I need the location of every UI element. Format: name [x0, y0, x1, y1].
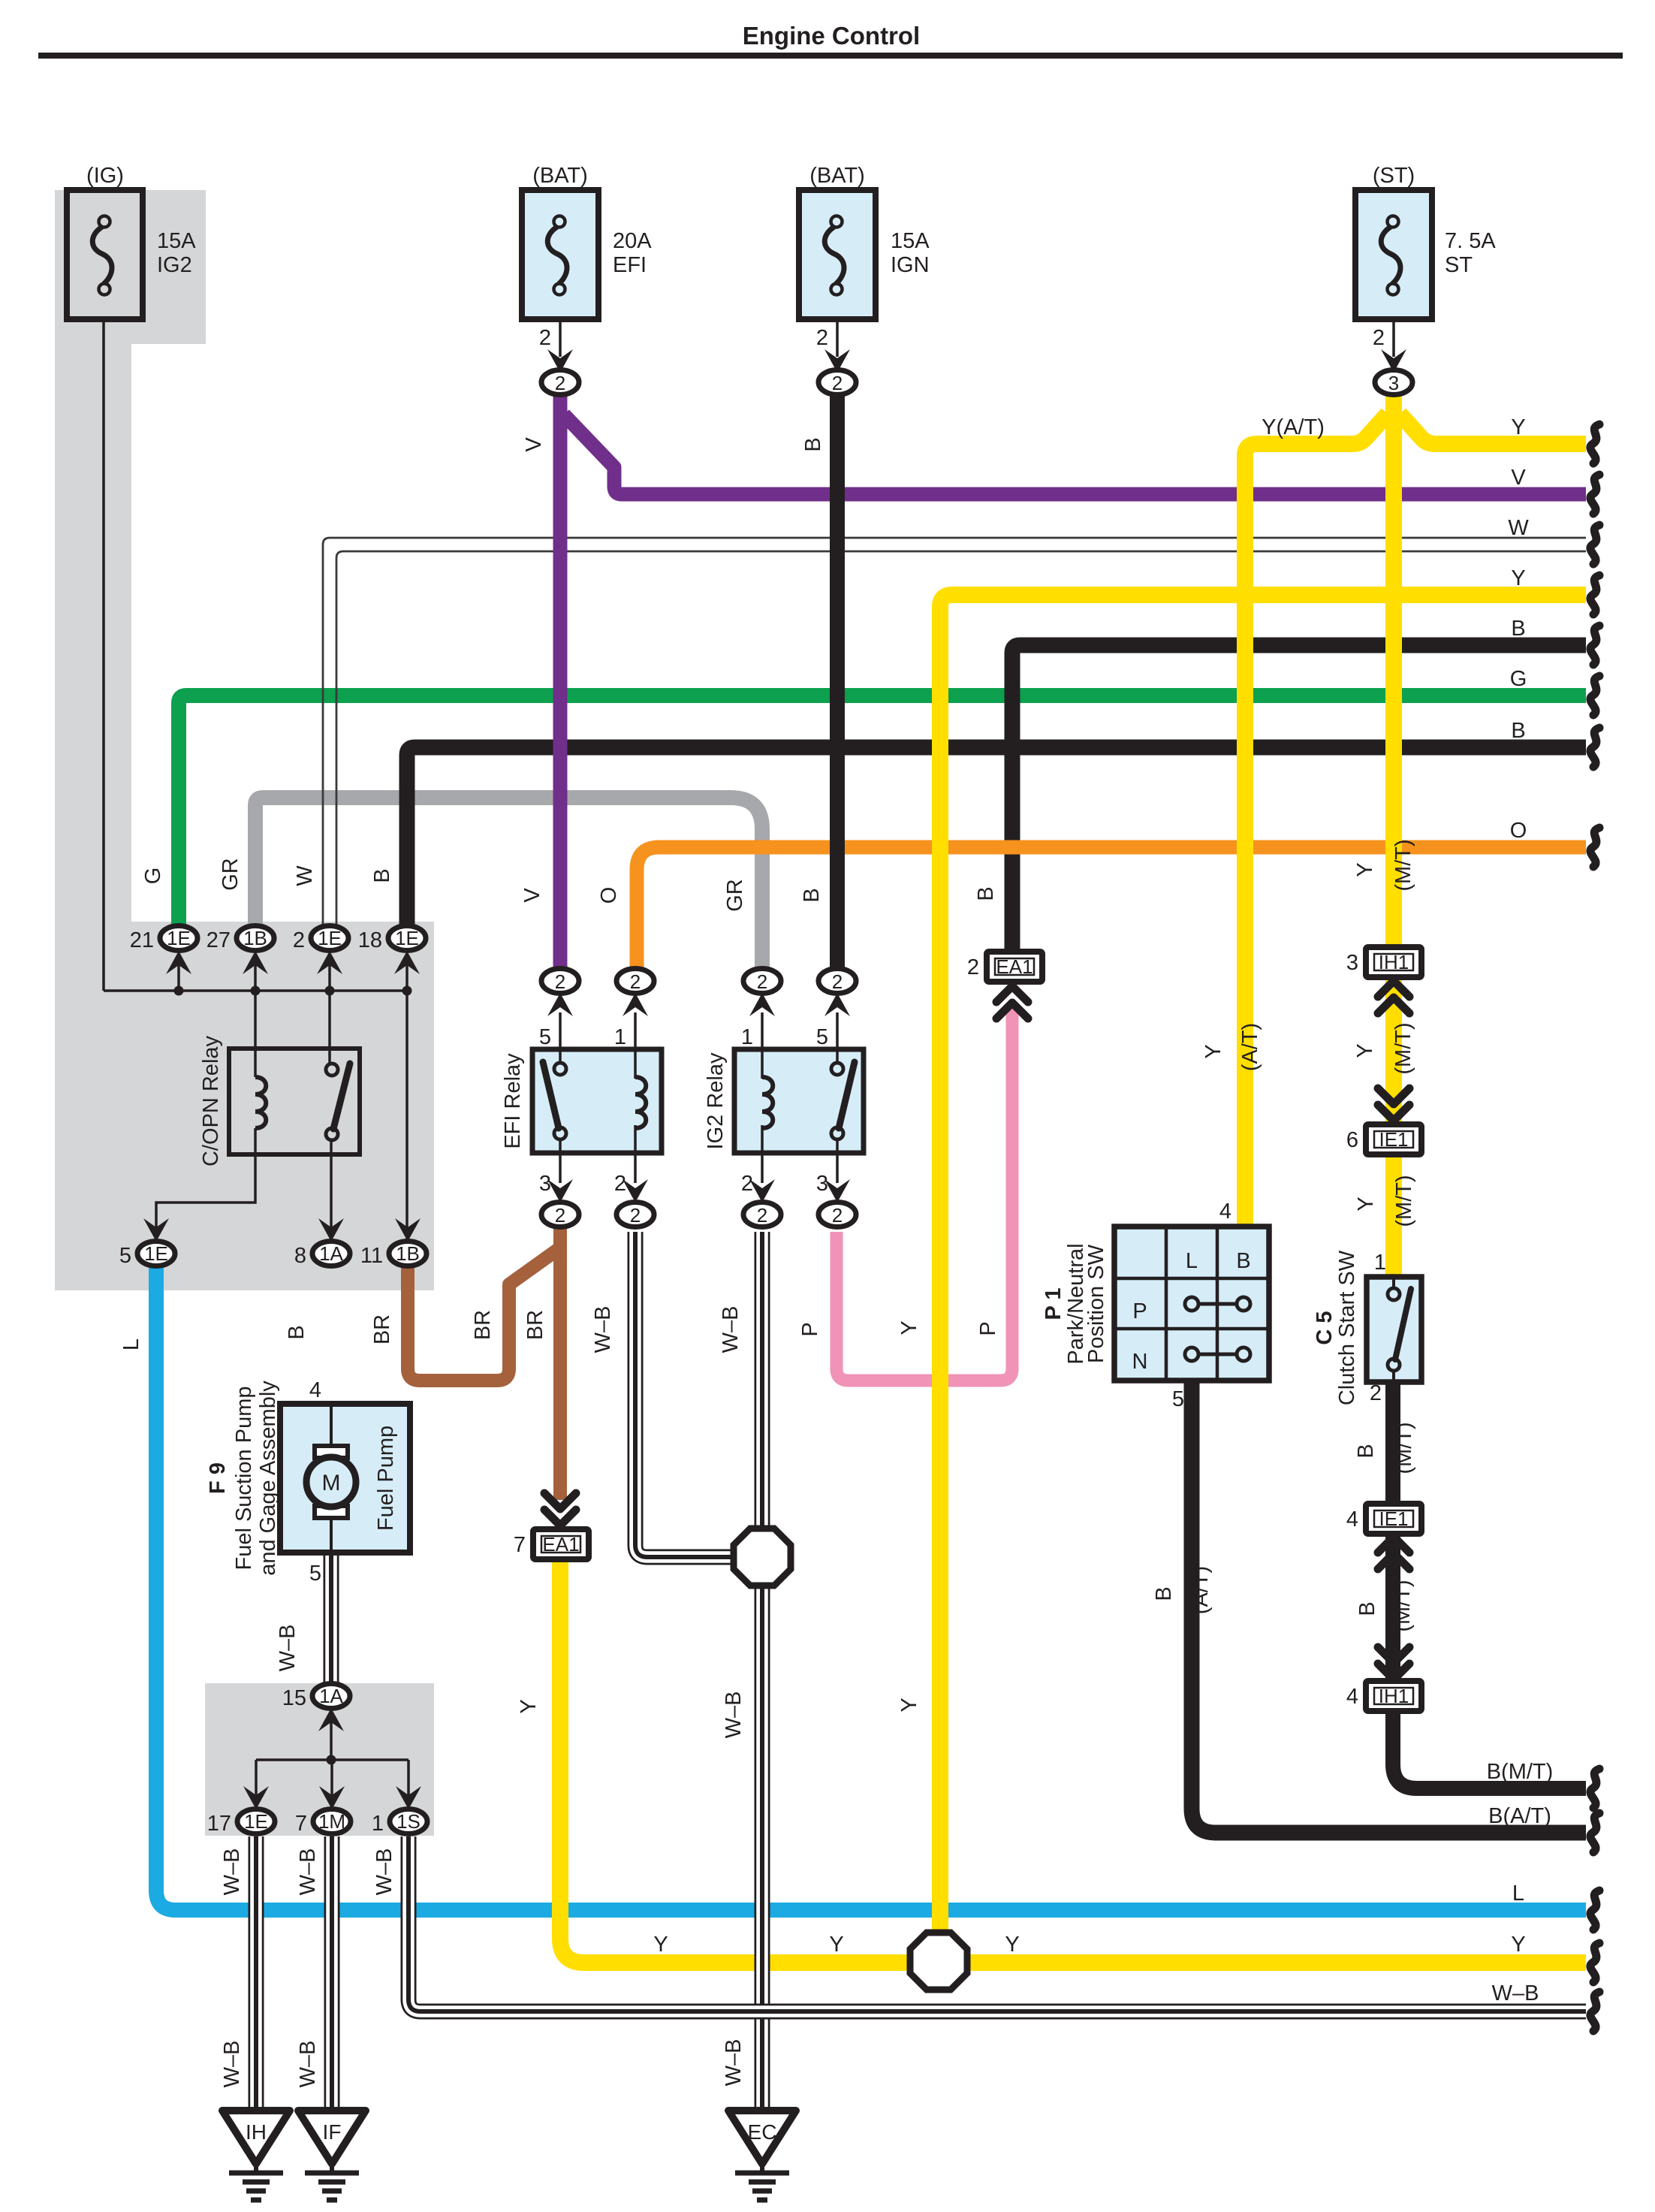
- wire P pink: [837, 1006, 1012, 1381]
- svg-text:BR: BR: [523, 1310, 547, 1340]
- svg-text:G: G: [1510, 667, 1527, 691]
- arrow into EFI relay pin3 lower connector: [547, 1179, 573, 1203]
- wire fuel pump internal top: [330, 1404, 333, 1448]
- wire W-B IG2 relay pin2 to EC ground: [755, 1232, 770, 2109]
- wire Y ST vertical: [1385, 393, 1402, 947]
- junction block gray region left: [55, 190, 434, 1290]
- junction dot A: [174, 986, 184, 996]
- svg-text:Y: Y: [1353, 1043, 1377, 1058]
- svg-text:Engine Control: Engine Control: [743, 22, 920, 50]
- svg-text:V: V: [1511, 466, 1526, 490]
- wire B M/T clutch to IE1: [1385, 1382, 1400, 1505]
- fuse IGN box: [799, 190, 876, 319]
- wire B bus upper: [1012, 645, 1586, 952]
- svg-text:8: 8: [294, 1244, 306, 1268]
- svg-text:W–B: W–B: [296, 1848, 320, 1896]
- svg-text:B: B: [801, 437, 825, 451]
- arrow into EFI relay pin5 connector: [547, 993, 573, 1016]
- svg-text:Clutch Start SW: Clutch Start SW: [1335, 1250, 1359, 1405]
- svg-text:C 5: C 5: [1313, 1311, 1337, 1344]
- svg-text:W–B: W–B: [1492, 1981, 1539, 2005]
- arrow into 2 1E: [317, 951, 342, 974]
- svg-text:EA1: EA1: [996, 955, 1032, 978]
- svg-text:2: 2: [555, 372, 565, 394]
- wire IG2 relay pin3 link: [836, 1140, 839, 1183]
- wire IG2 relay pin2 link: [761, 1128, 764, 1183]
- svg-text:IH: IH: [246, 2120, 267, 2144]
- svg-text:1: 1: [1374, 1251, 1386, 1275]
- wire stub to 1 1S: [407, 1760, 410, 1798]
- svg-text:20A: 20A: [613, 229, 652, 253]
- wire stub to 17 1E: [255, 1760, 258, 1798]
- svg-text:2: 2: [832, 372, 843, 394]
- wire Y A/T fork left: [1245, 414, 1388, 1227]
- svg-text:1M: 1M: [318, 1810, 345, 1833]
- junction dot E: [327, 1755, 336, 1765]
- svg-text:6: 6: [1346, 1128, 1358, 1152]
- wire continuation W-B bottom: [1590, 1992, 1599, 2031]
- ground IF: [298, 2111, 366, 2200]
- arrow into IG2 relay pin3 lower connector: [824, 1179, 850, 1203]
- wire stub to 21 1E: [177, 964, 180, 991]
- wire IG fuse drop: [102, 319, 105, 991]
- connector ellipse IG2 pin3 low: [818, 1203, 856, 1227]
- svg-text:11: 11: [360, 1244, 383, 1268]
- svg-text:B: B: [1152, 1586, 1176, 1601]
- wire W bus inner edge: [336, 551, 1586, 926]
- svg-text:ST: ST: [1445, 253, 1473, 277]
- svg-text:B: B: [1236, 1249, 1250, 1273]
- svg-text:B: B: [1511, 719, 1525, 743]
- svg-text:IG2 Relay: IG2 Relay: [704, 1052, 728, 1149]
- svg-text:IE1: IE1: [1379, 1128, 1408, 1151]
- arrow into 17 1E: [243, 1786, 269, 1809]
- chevrons into 3 IH1: [1378, 981, 1409, 1013]
- arrow into IGN fuse connector: [824, 349, 850, 373]
- svg-text:1: 1: [741, 1025, 753, 1049]
- connector box 7 EA1: [533, 1529, 589, 1559]
- fuse IG2 box: [67, 190, 143, 319]
- wire Y M/T IH1 to IE1: [1385, 975, 1402, 1127]
- svg-text:W: W: [1508, 516, 1529, 540]
- svg-text:1: 1: [372, 1812, 384, 1836]
- arrow into 18 1E: [394, 951, 420, 974]
- svg-text:Y(A/T): Y(A/T): [1262, 415, 1325, 439]
- svg-text:Fuel Suction Pump: Fuel Suction Pump: [232, 1386, 256, 1570]
- arrow into IG2 relay pin1 connector: [749, 993, 775, 1016]
- svg-text:17: 17: [207, 1812, 231, 1836]
- svg-text:B: B: [800, 888, 824, 902]
- svg-text:2: 2: [967, 955, 979, 979]
- svg-text:Y: Y: [1511, 415, 1525, 439]
- svg-text:5: 5: [539, 1025, 551, 1049]
- connector ellipse 3 under ST fuse: [1375, 370, 1412, 395]
- wire B M/T bus: [1393, 1709, 1586, 1788]
- svg-text:Position SW: Position SW: [1084, 1244, 1108, 1363]
- arrow into 15 1A: [318, 1708, 344, 1731]
- wire B M/T IE1 to IH1: [1385, 1532, 1400, 1683]
- ground IH: [222, 2111, 290, 2200]
- svg-text:2: 2: [832, 1204, 843, 1227]
- svg-text:C/OPN Relay: C/OPN Relay: [199, 1035, 223, 1166]
- wire EFI relay pin1 link: [634, 1012, 637, 1077]
- arrow into 27 1B: [243, 951, 268, 974]
- svg-text:B: B: [1354, 1444, 1378, 1458]
- svg-text:Y: Y: [829, 1933, 843, 1957]
- junction octagon Y: [910, 1933, 967, 1990]
- relay IG2 box: [734, 1049, 864, 1153]
- wire B IGN vertical: [830, 394, 845, 969]
- fuse ST box: [1355, 190, 1432, 319]
- wire continuation V: [1590, 475, 1599, 514]
- svg-text:W–B: W–B: [372, 1848, 396, 1896]
- wire continuation B M/T: [1590, 1769, 1599, 1808]
- svg-text:1E: 1E: [144, 1242, 168, 1265]
- connector box 4 IE1: [1366, 1504, 1421, 1534]
- svg-text:1B: 1B: [396, 1242, 420, 1265]
- svg-text:P 1: P 1: [1042, 1287, 1066, 1320]
- svg-text:15A: 15A: [157, 229, 196, 253]
- svg-text:V: V: [520, 888, 544, 903]
- connector ellipse 27 1B: [237, 926, 274, 951]
- chevrons into 7 EA1: [544, 1493, 576, 1525]
- svg-text:W–B: W–B: [591, 1306, 615, 1353]
- wire stub to 7 1M: [330, 1760, 333, 1798]
- svg-text:EA1: EA1: [542, 1533, 579, 1556]
- wire stub to 18 1E: [405, 964, 408, 991]
- connector ellipse EFI pin3 low: [541, 1203, 579, 1227]
- svg-text:B: B: [285, 1325, 309, 1339]
- wire continuation Y bottom: [1590, 1943, 1599, 1982]
- wire continuation B1: [1590, 626, 1599, 665]
- svg-text:3: 3: [539, 1172, 551, 1196]
- wire continuation O: [1590, 828, 1599, 867]
- fuse EFI box: [522, 190, 598, 319]
- svg-text:2: 2: [630, 1204, 641, 1227]
- svg-text:W: W: [293, 865, 317, 886]
- arrow into EFI relay pin1 connector: [623, 993, 648, 1016]
- svg-text:W–B: W–B: [220, 2041, 244, 2088]
- svg-text:(ST): (ST): [1373, 164, 1415, 188]
- svg-text:(BAT): (BAT): [809, 164, 865, 188]
- relay C/OPN box: [229, 1049, 360, 1154]
- svg-text:P: P: [1132, 1299, 1147, 1323]
- junction dot C: [325, 986, 335, 996]
- arrow into 1 1S: [396, 1786, 421, 1809]
- wire C/OPN switch bottom to 8 1A: [330, 1140, 333, 1239]
- wire EFI relay pin3 link: [559, 1140, 562, 1183]
- svg-text:(M/T): (M/T): [1392, 1175, 1416, 1227]
- svg-text:4: 4: [1346, 1507, 1358, 1532]
- connector ellipse 2 under EFI fuse: [541, 370, 579, 395]
- wire stub to 27 1B: [254, 964, 257, 991]
- wire BR branch: [408, 1248, 559, 1381]
- svg-text:W–B: W–B: [296, 2041, 320, 2088]
- wire Y2 bus: [940, 595, 1586, 1933]
- svg-text:18: 18: [358, 928, 382, 952]
- wire W-B 17 1E to IH ground: [249, 1836, 264, 2109]
- svg-text:2: 2: [832, 970, 843, 993]
- chevrons into 4 IH1: [1378, 1647, 1409, 1679]
- title underline: [38, 53, 1623, 59]
- svg-text:(M/T): (M/T): [1391, 839, 1415, 891]
- svg-text:and Gage Assembly: and Gage Assembly: [256, 1381, 280, 1576]
- connector ellipse 8 1A: [312, 1242, 350, 1266]
- svg-text:2: 2: [293, 928, 305, 952]
- svg-text:M: M: [322, 1471, 341, 1495]
- wire GR bus: [255, 798, 762, 969]
- wire W-B EFI relay pin2 to octagon: [635, 1232, 741, 1557]
- connector ellipse EFI pin5: [541, 969, 579, 994]
- svg-text:B: B: [1511, 617, 1525, 641]
- wire Y fork right: [1400, 414, 1586, 444]
- svg-text:B: B: [1355, 1601, 1379, 1616]
- svg-text:2: 2: [816, 326, 828, 350]
- switch C5 clutch start box: [1367, 1277, 1421, 1382]
- wire continuation G: [1590, 676, 1599, 715]
- chevrons into 4 IE1: [1378, 1537, 1409, 1569]
- svg-text:15A: 15A: [891, 229, 930, 253]
- connector ellipse 2 under IGN fuse: [818, 370, 856, 395]
- svg-text:L: L: [1186, 1249, 1198, 1273]
- connector ellipse EFI pin1: [616, 969, 654, 994]
- arrow into IG2 relay pin2 lower connector: [749, 1179, 775, 1203]
- wire 15 1A junction horizontal: [256, 1758, 408, 1761]
- svg-text:O: O: [597, 887, 621, 904]
- arrow into 11 1B: [395, 1218, 421, 1242]
- svg-text:IG2: IG2: [157, 253, 192, 277]
- svg-text:4: 4: [1219, 1200, 1231, 1224]
- wire Y bottom bus right: [968, 1954, 1586, 1971]
- svg-text:Y: Y: [1005, 1933, 1019, 1957]
- wire L blue: [156, 1266, 1586, 1910]
- connector box 6 IE1: [1366, 1124, 1421, 1154]
- svg-text:(A/T): (A/T): [1238, 1023, 1262, 1071]
- svg-text:W–B: W–B: [722, 2039, 746, 2087]
- svg-text:4: 4: [1346, 1685, 1358, 1709]
- svg-text:Y: Y: [1511, 1933, 1525, 1957]
- svg-text:2: 2: [555, 1204, 565, 1227]
- svg-text:5: 5: [816, 1025, 828, 1049]
- svg-text:Y: Y: [1353, 862, 1377, 877]
- svg-text:7: 7: [514, 1533, 526, 1557]
- svg-text:IH1: IH1: [1379, 951, 1409, 973]
- connector box 2 EA1: [987, 952, 1042, 982]
- svg-text:O: O: [1510, 819, 1527, 843]
- svg-text:IH1: IH1: [1379, 1685, 1409, 1707]
- wire BR main: [553, 1227, 567, 1500]
- arrow into IG2 relay pin5 connector: [824, 993, 850, 1016]
- svg-text:EC: EC: [748, 2120, 777, 2144]
- svg-text:B(A/T): B(A/T): [1488, 1804, 1551, 1828]
- svg-text:21: 21: [130, 928, 154, 952]
- svg-text:IE1: IE1: [1379, 1507, 1408, 1530]
- svg-text:3: 3: [1346, 951, 1358, 975]
- wire continuation B A/T: [1590, 1813, 1599, 1852]
- svg-text:(M/T): (M/T): [1391, 1580, 1415, 1631]
- wire ST fuse stub: [1392, 319, 1395, 357]
- wire 18 1E drop to 11 1B: [405, 991, 408, 1239]
- svg-text:BR: BR: [471, 1310, 495, 1340]
- wire W-B 1S to bottom bus: [408, 1836, 1586, 2011]
- wire EFI relay pin2 link: [634, 1128, 637, 1183]
- wire C/OPN switch top pin: [328, 991, 331, 1065]
- svg-text:1A: 1A: [319, 1685, 343, 1707]
- svg-text:1S: 1S: [396, 1810, 421, 1833]
- svg-text:1: 1: [614, 1025, 626, 1049]
- fuel pump F9 box: [280, 1404, 410, 1553]
- arrow into EFI relay pin2 lower connector: [623, 1179, 648, 1203]
- svg-text:B(M/T): B(M/T): [1487, 1760, 1554, 1784]
- wire continuation Y1: [1590, 424, 1599, 463]
- svg-text:EFI Relay: EFI Relay: [501, 1053, 525, 1149]
- svg-text:2: 2: [555, 970, 565, 993]
- connector ellipse 5 1E: [137, 1242, 175, 1266]
- connector ellipse 11 1B: [389, 1242, 427, 1266]
- arrow into 7 1M: [319, 1786, 345, 1809]
- svg-text:2: 2: [1373, 326, 1385, 350]
- connector ellipse 1 1S: [390, 1809, 427, 1834]
- connector ellipse 17 1E: [237, 1809, 275, 1834]
- relay EFI box: [532, 1049, 662, 1153]
- svg-text:W–B: W–B: [220, 1848, 244, 1896]
- svg-text:4: 4: [309, 1378, 321, 1402]
- wire IG2 relay pin5 link: [836, 1012, 839, 1067]
- connector ellipse 7 1M: [313, 1809, 351, 1834]
- svg-text:Y: Y: [1201, 1044, 1225, 1058]
- svg-text:2: 2: [614, 1172, 626, 1196]
- svg-text:7. 5A: 7. 5A: [1445, 229, 1496, 253]
- wire continuation L: [1590, 1891, 1599, 1930]
- svg-text:1E: 1E: [395, 927, 419, 949]
- svg-text:2: 2: [757, 1204, 767, 1227]
- svg-text:2: 2: [757, 970, 767, 993]
- svg-text:GR: GR: [219, 858, 243, 891]
- svg-text:3: 3: [816, 1172, 828, 1196]
- connector ellipse IG2 pin2 low: [743, 1203, 781, 1227]
- svg-text:W–B: W–B: [722, 1691, 746, 1739]
- svg-text:1E: 1E: [244, 1810, 268, 1833]
- svg-text:B: B: [974, 886, 998, 901]
- svg-text:15: 15: [282, 1686, 306, 1710]
- svg-text:F 9: F 9: [206, 1462, 230, 1494]
- wire B bus lower: [407, 747, 1586, 926]
- junction block gray region bottom: [205, 1683, 434, 1836]
- svg-text:1E: 1E: [167, 927, 191, 949]
- svg-text:5: 5: [1172, 1387, 1184, 1411]
- svg-text:Y: Y: [1354, 1197, 1378, 1211]
- wire continuation W: [1590, 525, 1599, 564]
- arrow into 5 1E: [143, 1218, 169, 1242]
- wire stub to 2 1E: [328, 964, 331, 991]
- svg-text:L: L: [119, 1338, 143, 1350]
- svg-text:N: N: [1132, 1350, 1148, 1374]
- arrow into EFI fuse connector: [547, 349, 573, 373]
- svg-text:BR: BR: [370, 1314, 394, 1344]
- connector box 3 IH1: [1366, 947, 1421, 977]
- wire IG2 relay pin1 link: [761, 1012, 764, 1077]
- svg-text:2: 2: [741, 1172, 753, 1196]
- wire V bus: [564, 415, 1586, 494]
- svg-text:3: 3: [1388, 372, 1399, 394]
- arrow into 21 1E: [166, 951, 191, 974]
- connector box 4 IH1: [1366, 1681, 1421, 1711]
- svg-text:P: P: [798, 1322, 822, 1336]
- svg-text:27: 27: [206, 928, 231, 952]
- wire O bus: [637, 847, 1586, 969]
- wire junction bus horizontal: [104, 989, 407, 992]
- connector ellipse IG2 pin1: [743, 969, 781, 994]
- arrow into ST fuse connector: [1381, 349, 1406, 373]
- wire W-B 7 1M to IF ground: [324, 1836, 340, 2109]
- connector ellipse 18 1E: [388, 926, 426, 951]
- connector ellipse 21 1E: [160, 926, 197, 951]
- svg-text:EFI: EFI: [613, 253, 647, 277]
- svg-text:IGN: IGN: [891, 253, 930, 277]
- svg-text:IF: IF: [323, 2120, 342, 2144]
- connector ellipse 2 1E: [311, 926, 348, 951]
- ground EC: [728, 2111, 796, 2200]
- svg-text:Y: Y: [897, 1697, 921, 1712]
- wire continuation Y2: [1590, 575, 1599, 614]
- wire Y M/T IE1 to clutch SW: [1385, 1152, 1402, 1277]
- svg-text:1A: 1A: [319, 1242, 343, 1265]
- svg-text:(A/T): (A/T): [1189, 1566, 1213, 1614]
- svg-text:(BAT): (BAT): [532, 164, 588, 188]
- svg-text:V: V: [522, 437, 546, 452]
- svg-text:Y: Y: [897, 1320, 921, 1335]
- svg-text:1E: 1E: [318, 927, 342, 949]
- svg-text:Y: Y: [1511, 566, 1525, 590]
- svg-text:2: 2: [539, 326, 551, 350]
- svg-text:W–B: W–B: [719, 1306, 743, 1353]
- switch P1 box: [1114, 1227, 1269, 1381]
- svg-text:7: 7: [295, 1812, 307, 1836]
- svg-text:B: B: [370, 868, 394, 883]
- svg-text:5: 5: [119, 1244, 131, 1268]
- svg-text:Y: Y: [653, 1933, 668, 1957]
- wire fuel pump internal bottom: [330, 1516, 333, 1553]
- wire EFI fuse stub: [559, 319, 562, 357]
- wire G bus: [179, 696, 1586, 926]
- wire continuation B2: [1590, 728, 1599, 767]
- wire 15 1A junction vertical: [330, 1719, 333, 1760]
- svg-text:G: G: [141, 868, 165, 885]
- connector ellipse 15 1A: [312, 1684, 350, 1709]
- wire W bus outer edge: [323, 538, 1586, 926]
- wire C/OPN coil top pin: [254, 991, 257, 1077]
- svg-text:P: P: [976, 1321, 1000, 1335]
- connector ellipse EFI pin2 low: [616, 1203, 654, 1227]
- svg-text:1B: 1B: [243, 927, 267, 949]
- svg-text:Fuel Pump: Fuel Pump: [374, 1426, 398, 1531]
- svg-text:GR: GR: [723, 879, 747, 912]
- svg-text:2: 2: [1370, 1381, 1382, 1405]
- wire IGN fuse stub: [836, 319, 839, 357]
- svg-text:L: L: [1512, 1882, 1524, 1906]
- chevrons into 6 IE1: [1378, 1088, 1409, 1121]
- svg-text:Y: Y: [517, 1699, 541, 1713]
- svg-text:(IG): (IG): [86, 164, 124, 188]
- svg-text:5: 5: [309, 1562, 321, 1586]
- arrow into 8 1A: [318, 1218, 344, 1242]
- junction dot D: [402, 986, 412, 996]
- chevrons into 2 EA1: [996, 986, 1028, 1018]
- junction octagon W-B: [734, 1528, 791, 1586]
- svg-text:2: 2: [630, 970, 641, 993]
- junction dot B: [251, 986, 261, 996]
- connector ellipse IG2 pin5: [818, 969, 856, 994]
